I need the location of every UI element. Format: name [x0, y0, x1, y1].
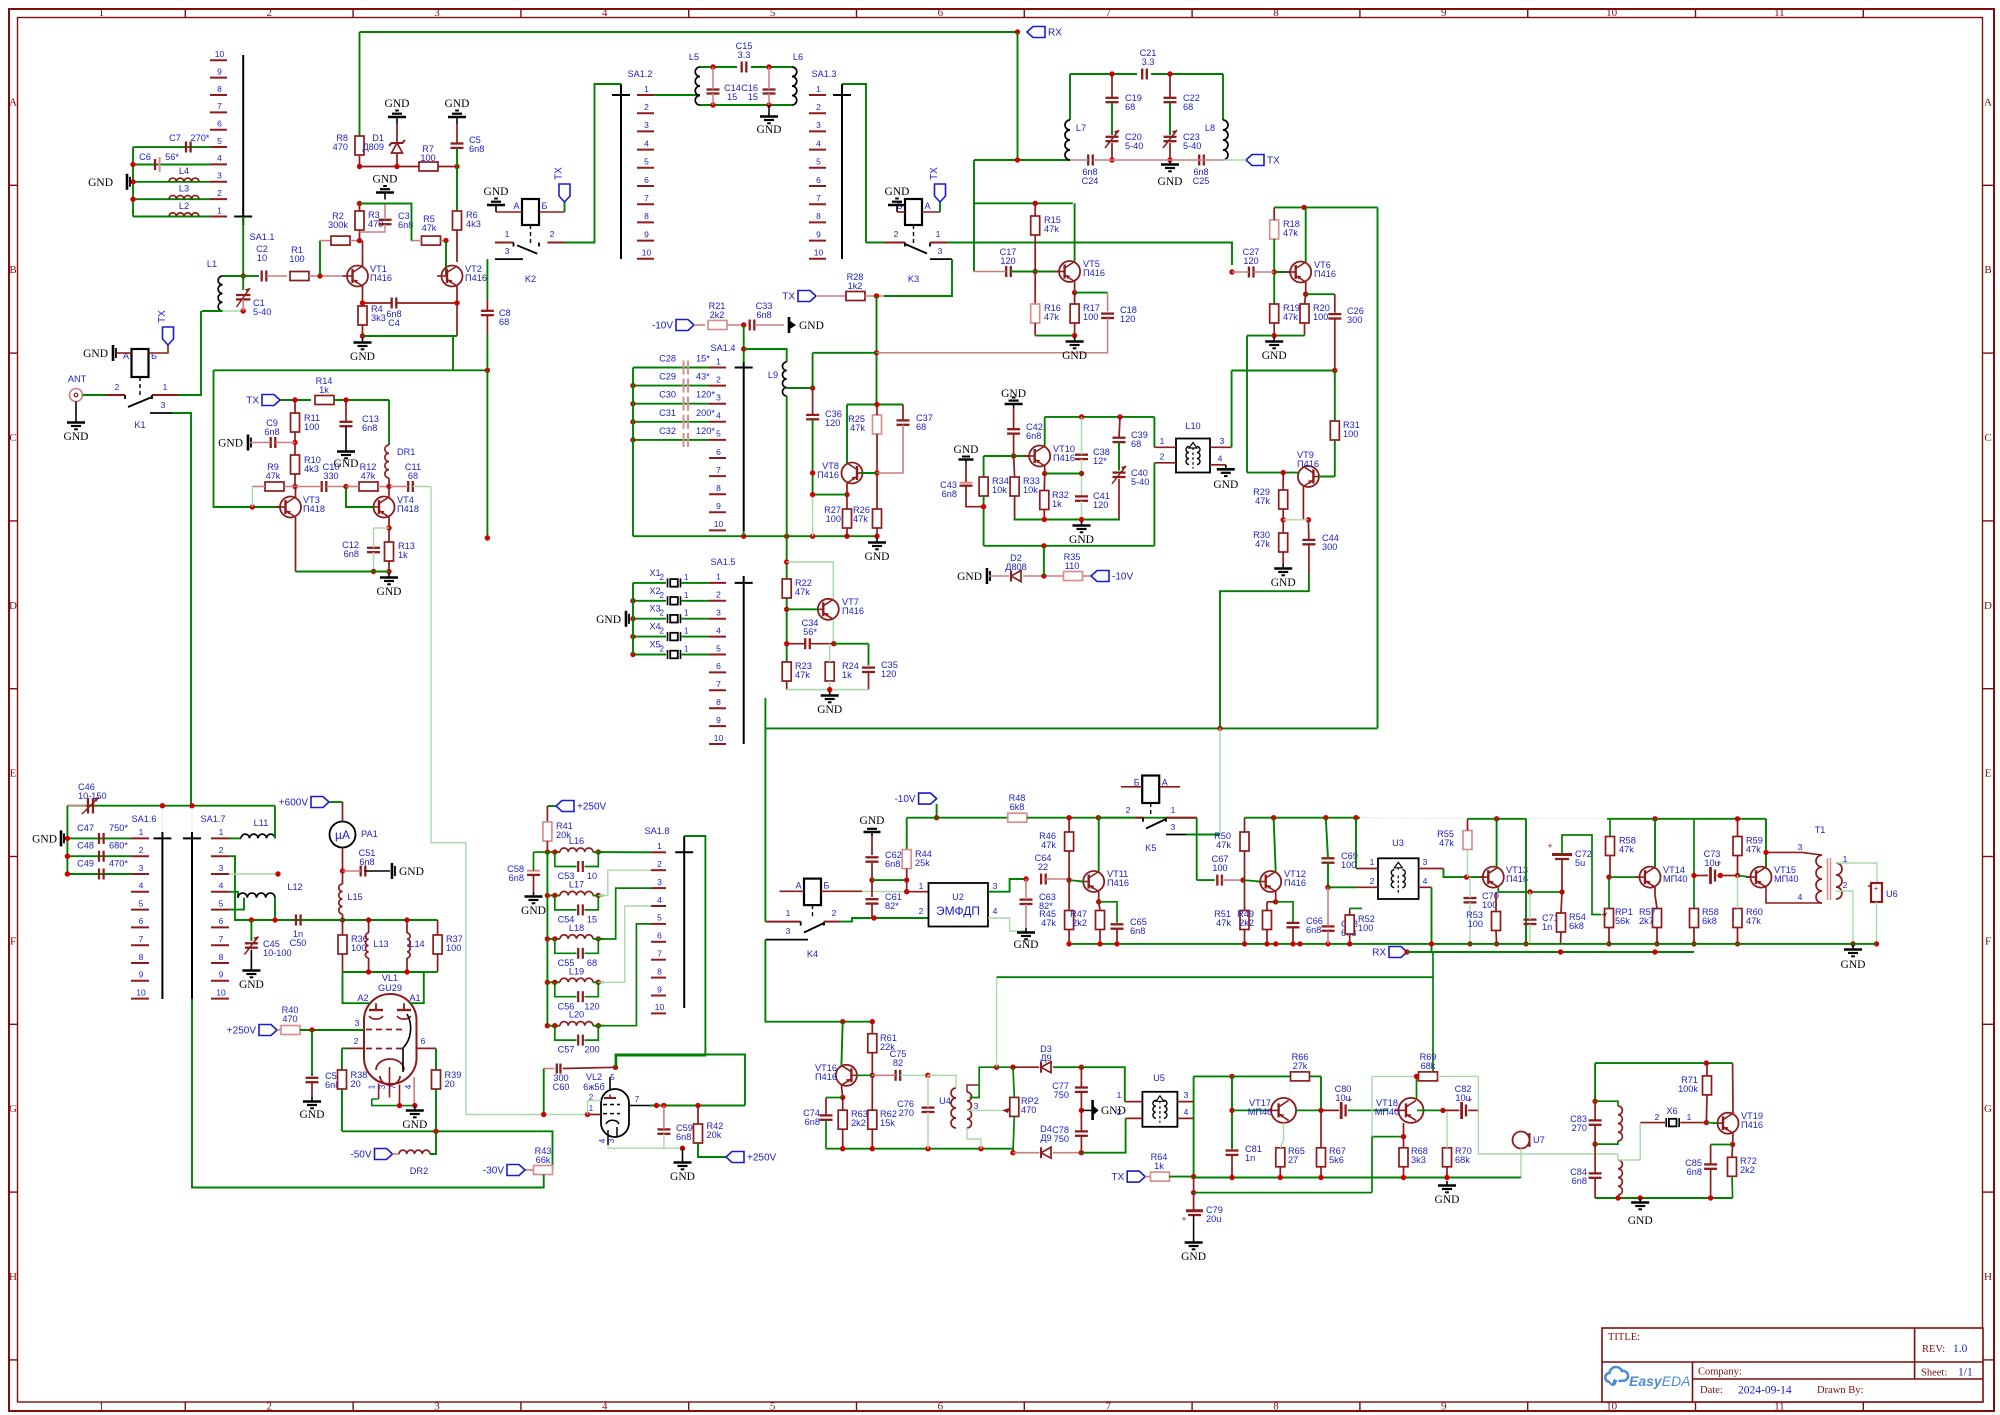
- svg-text:10: 10: [714, 733, 724, 743]
- label C36: [825, 409, 842, 428]
- svg-text:C28: C28: [659, 354, 676, 364]
- capacitor C39: [1113, 438, 1126, 442]
- svg-text:4: 4: [1798, 892, 1803, 902]
- junction: [1353, 815, 1358, 820]
- wire R66 right: [1310, 1075, 1322, 1077]
- wire C15 to L6 top: [751, 66, 792, 68]
- wire C81 bottom: [1231, 1155, 1233, 1178]
- capacitor C14: [707, 83, 741, 102]
- wire VT6 top rail: [1274, 206, 1377, 208]
- wire to C60: [544, 1068, 555, 1070]
- wire U4 pin4 down: [967, 1128, 981, 1149]
- wire R64 right: [1169, 1176, 1194, 1178]
- wire VT12 collector: [1274, 818, 1276, 872]
- svg-text:5: 5: [716, 429, 721, 439]
- wire K2 coil to flag: [539, 211, 565, 213]
- wire VT15 base: [1738, 876, 1752, 878]
- junction: [596, 849, 601, 854]
- ground left of K1 coil: [83, 345, 116, 361]
- wire L18 right: [593, 938, 604, 940]
- svg-text:2: 2: [660, 645, 665, 654]
- capacitor C81: [1226, 1151, 1239, 1155]
- junction: [1015, 157, 1020, 162]
- svg-text:750: 750: [1054, 1134, 1069, 1144]
- ground below VT8: [865, 538, 890, 563]
- junction: [766, 64, 771, 69]
- inductor L7: [1065, 120, 1086, 160]
- junction: [1494, 941, 1499, 946]
- svg-text:4: 4: [404, 1084, 413, 1089]
- wire K2 pin3 down: [486, 259, 488, 299]
- svg-text:6n8: 6n8: [1130, 926, 1145, 936]
- wire R47 bottom: [1099, 930, 1101, 944]
- svg-text:100: 100: [1083, 312, 1098, 322]
- capacitor C69: [1322, 858, 1335, 862]
- svg-text:3.3: 3.3: [1142, 57, 1155, 67]
- wire K4 coil left: [780, 890, 805, 892]
- wire C20 bottom: [1111, 143, 1113, 160]
- junction: [695, 1103, 700, 1108]
- wire stub11: [191, 806, 193, 832]
- wire stub17: [1244, 817, 1246, 819]
- capacitor C3: [379, 220, 392, 224]
- svg-text:1n: 1n: [1542, 922, 1552, 932]
- svg-text:C7: C7: [169, 133, 181, 143]
- wire C46 left: [67, 805, 85, 807]
- wire R53 top: [1495, 892, 1497, 912]
- wire R3 node to R5: [360, 204, 412, 241]
- wire VT3/VT4 emitter rail: [296, 571, 390, 573]
- svg-text:U5: U5: [1153, 1073, 1165, 1083]
- capacitor C51: [361, 866, 366, 877]
- switch SA1.6 common bar: [131, 814, 171, 999]
- svg-text:П416: П416: [842, 606, 864, 616]
- wire VT13 collector: [1496, 819, 1498, 867]
- capacitor C13: [340, 422, 353, 426]
- wire R16 bottom: [1034, 323, 1036, 336]
- svg-text:8: 8: [816, 211, 821, 221]
- wire R67 bottom: [1320, 1167, 1322, 1178]
- wire C70 top: [1469, 877, 1471, 898]
- resistor R19: [1270, 303, 1300, 323]
- capacitor C1 variable: [236, 288, 271, 317]
- wire K5 pin3: [1187, 834, 1220, 836]
- wire rail to D2 node: [1043, 546, 1045, 576]
- wire C73 right: [1717, 875, 1737, 877]
- junction: [1559, 889, 1564, 894]
- svg-text:3: 3: [1184, 1090, 1189, 1100]
- inductor L14: [407, 933, 425, 958]
- switch SA1.5 common bar: [735, 576, 753, 744]
- resistor R65: [1276, 1146, 1305, 1167]
- svg-text:10: 10: [216, 987, 226, 997]
- wire pin2 lead: [348, 1047, 365, 1049]
- wire R11 bottom: [294, 432, 296, 455]
- capacitor C26: [1328, 314, 1341, 318]
- wire heater bottom: [372, 1099, 415, 1106]
- wire to L17: [547, 895, 560, 897]
- filter U3: [1378, 838, 1419, 899]
- switch SA1.6 contacts: [131, 827, 149, 998]
- svg-text:6n8: 6n8: [1572, 1176, 1587, 1186]
- wire VT4 base: [346, 487, 374, 508]
- wire C29 row: [633, 385, 709, 387]
- svg-text:22: 22: [1038, 862, 1048, 872]
- resistor R32: [1040, 490, 1069, 510]
- U3 pins: [1356, 857, 1444, 887]
- wire U3 pin3 to VT13: [1444, 869, 1484, 878]
- svg-text:SA1.3: SA1.3: [811, 69, 836, 79]
- wire tap up: [812, 353, 814, 388]
- junction: [1429, 941, 1434, 946]
- wire C85 bottom: [1710, 1169, 1712, 1198]
- wire PA1 bottom: [342, 848, 344, 872]
- svg-text:Д809: Д809: [362, 142, 384, 152]
- wire R65 bottom: [1279, 1167, 1281, 1178]
- svg-text:750*: 750*: [109, 823, 128, 833]
- wire R45 bottom: [1068, 930, 1070, 944]
- junction: [1318, 1108, 1323, 1113]
- wire L9 down to rail: [786, 396, 788, 536]
- label C81: [1245, 1144, 1262, 1163]
- inductor L16: [560, 836, 593, 852]
- wire C59 bottom: [664, 1134, 683, 1148]
- wire L8 right: [1222, 74, 1224, 120]
- wire VT14/VT15 rail: [1607, 818, 1766, 820]
- junction: [412, 1103, 417, 1108]
- wire to TX flag K3: [939, 202, 941, 212]
- ground below C79: [1181, 1238, 1206, 1263]
- svg-text:10k: 10k: [1023, 485, 1038, 495]
- net flag TX at R64: [1111, 1171, 1145, 1183]
- wire R2 left lead: [320, 240, 331, 242]
- svg-text:П416: П416: [815, 1072, 837, 1082]
- wire R61 bottom: [871, 1053, 873, 1076]
- wire pin5 tap: [598, 924, 651, 1026]
- ground below C23: [1158, 160, 1183, 188]
- junction: [292, 440, 297, 445]
- junction: [404, 917, 409, 922]
- wire R55 bottom: [1467, 850, 1469, 878]
- wire coil1 bottom: [1595, 1141, 1618, 1144]
- svg-text:4: 4: [139, 881, 144, 891]
- wire to SA1.4: [743, 325, 745, 349]
- resistor R14: [315, 376, 334, 405]
- junction: [1271, 815, 1276, 820]
- wire rail to R43: [544, 1131, 553, 1170]
- svg-text:E: E: [1985, 768, 1992, 780]
- svg-text:6k8: 6k8: [1010, 802, 1025, 812]
- wire to C75: [872, 1074, 895, 1076]
- svg-text:GND: GND: [860, 815, 885, 827]
- wire C36 bottom to emitter row: [812, 419, 814, 494]
- wire K5 coil left: [1121, 786, 1142, 788]
- wire C44 to K5 line: [1220, 574, 1309, 728]
- svg-text:3: 3: [644, 120, 649, 130]
- wire coil1 top: [1595, 1101, 1618, 1106]
- wire C18 bottom to R28 line: [877, 318, 1108, 353]
- wire node to R7: [360, 166, 420, 168]
- svg-text:GND: GND: [399, 866, 424, 878]
- wire VT11 emitter: [1098, 892, 1100, 902]
- label X2: [649, 586, 689, 600]
- junction: [1735, 873, 1740, 878]
- wire U4 to RP2 wiper: [967, 1109, 984, 1111]
- svg-text:TX: TX: [1267, 156, 1280, 167]
- wire VT13 rail: [1468, 818, 1527, 820]
- svg-text:10: 10: [587, 871, 597, 881]
- capacitor C24: [1088, 155, 1093, 166]
- svg-text:П418: П418: [303, 504, 325, 514]
- svg-text:10k: 10k: [992, 485, 1007, 495]
- svg-text:3: 3: [607, 1138, 616, 1143]
- svg-text:K4: K4: [807, 949, 818, 959]
- label C39: [1131, 430, 1148, 449]
- wire VT12 emitter: [1275, 892, 1277, 902]
- junction: [397, 1103, 402, 1108]
- svg-text:SA1.7: SA1.7: [200, 814, 225, 824]
- wire VT3 collector: [295, 487, 297, 498]
- svg-text:3: 3: [716, 393, 721, 403]
- resistor R21: [708, 301, 727, 330]
- label C19: [1125, 93, 1142, 112]
- wire VT15 emitter to T1 pin4: [1766, 887, 1802, 903]
- svg-text:C49: C49: [77, 859, 94, 869]
- junction: [552, 936, 557, 941]
- wire VT17 out: [1296, 1109, 1321, 1111]
- switch SA1.1 common bar: [234, 55, 274, 242]
- svg-text:C24: C24: [1082, 176, 1099, 186]
- junction: [1652, 949, 1657, 954]
- svg-text:5k6: 5k6: [1329, 1155, 1344, 1165]
- junction: [371, 569, 376, 574]
- svg-text:100: 100: [1212, 863, 1227, 873]
- relay K2 contacts: [495, 229, 565, 284]
- svg-text:C: C: [9, 432, 16, 444]
- svg-text:4: 4: [816, 138, 821, 148]
- wire R13 top: [388, 528, 390, 542]
- wire SA1.1 left rail: [132, 147, 134, 216]
- svg-text:B: B: [9, 264, 16, 276]
- wire pin2 lead: [588, 1100, 602, 1102]
- ground left of X3: [596, 611, 629, 627]
- label C3: [398, 211, 413, 230]
- junction: [1096, 815, 1101, 820]
- svg-text:L9: L9: [768, 370, 778, 380]
- junction: [545, 980, 550, 985]
- inductor L20: [560, 1010, 593, 1026]
- capacitor C27: [1249, 267, 1254, 278]
- potentiometer RP1: [1605, 907, 1633, 928]
- inductor L17: [560, 880, 593, 896]
- wire VT11 base: [1069, 880, 1084, 881]
- wire bar stub: [743, 531, 745, 536]
- svg-text:4: 4: [602, 7, 608, 19]
- wire K5 pin1 down: [1196, 818, 1198, 880]
- wire VT9 emitter: [1302, 487, 1304, 520]
- svg-text:4: 4: [217, 153, 222, 163]
- wire C26 bottom: [1334, 319, 1336, 371]
- wire L12 right down: [274, 898, 276, 920]
- label C38: [1093, 447, 1110, 466]
- svg-text:L14: L14: [409, 939, 424, 949]
- capacitor C23 variable: [1163, 130, 1177, 148]
- svg-text:2: 2: [550, 229, 555, 239]
- wire C82 left: [1443, 1109, 1459, 1111]
- wire VT18 emitter: [1403, 1123, 1405, 1148]
- svg-text:VL2: VL2: [586, 1072, 602, 1082]
- svg-text:2k2: 2k2: [1740, 1165, 1755, 1175]
- wire R14 to C13 node: [334, 399, 389, 401]
- junction: [552, 893, 557, 898]
- junction: [630, 652, 635, 657]
- wire R27 bottom: [846, 528, 848, 536]
- ground above D1: [385, 98, 410, 124]
- wire SA1.8 wiper to VL2: [616, 836, 705, 1067]
- svg-text:2k2: 2k2: [851, 1118, 866, 1128]
- wire L3 row: [133, 198, 210, 200]
- wire R46 top: [1068, 818, 1070, 832]
- label C22: [1183, 93, 1200, 112]
- wire VT19 emitter: [1732, 1133, 1734, 1144]
- wire C54 loop left: [555, 896, 577, 910]
- junction: [784, 641, 789, 646]
- junction: [1079, 1150, 1084, 1155]
- relay K5 dashed link: [1150, 803, 1152, 815]
- resistor R49: [1237, 909, 1271, 930]
- svg-text:D: D: [9, 600, 17, 612]
- svg-text:C60: C60: [553, 1082, 570, 1092]
- wire VL2 cathode: [608, 1145, 664, 1148]
- svg-text:10-100: 10-100: [263, 948, 292, 958]
- wire C69 top: [1326, 818, 1328, 859]
- svg-text:2: 2: [660, 609, 665, 618]
- wire C11 long to VL2: [431, 487, 466, 1115]
- wire C83 top: [1594, 1101, 1596, 1120]
- wire VT16 emitter: [841, 1085, 842, 1097]
- microphone U7: [1513, 1132, 1545, 1149]
- junction: [130, 197, 135, 202]
- junction: [1850, 941, 1855, 946]
- capacitor C70: [1464, 898, 1477, 902]
- svg-text:L7: L7: [1076, 123, 1086, 133]
- resistor R5: [422, 214, 441, 245]
- wire emitter to C85: [1711, 1144, 1733, 1146]
- wire C57 loop right: [585, 1026, 599, 1040]
- wire C68 top: [1327, 887, 1329, 926]
- junction: [1033, 201, 1038, 206]
- junction: [869, 877, 874, 882]
- junction: [874, 470, 879, 475]
- wire R28 right: [865, 295, 884, 297]
- svg-text:47k: 47k: [1283, 312, 1298, 322]
- junction: [189, 803, 194, 808]
- capacitor C75: [896, 1070, 901, 1081]
- svg-text:6n8: 6n8: [756, 310, 771, 320]
- svg-text:6n8: 6n8: [509, 873, 524, 883]
- svg-text:F: F: [1985, 935, 1991, 947]
- junction: [1467, 941, 1472, 946]
- wire GND to C43: [965, 463, 967, 482]
- net flag -30V: [483, 1165, 525, 1177]
- junction: [661, 1103, 666, 1108]
- svg-text:GND: GND: [1435, 1194, 1460, 1206]
- junction: [710, 64, 715, 69]
- wire C8 top lead: [486, 299, 488, 311]
- junction: [552, 849, 557, 854]
- wire stub4: [1231, 243, 1233, 273]
- wire X6 left: [1640, 1122, 1665, 1124]
- wire SA1.7 pin4: [229, 892, 238, 898]
- junction: [1217, 726, 1222, 731]
- junction: [630, 616, 635, 621]
- wire C3 bottom: [360, 224, 386, 232]
- wire C73 left: [1694, 875, 1708, 877]
- svg-text:GND: GND: [239, 979, 264, 991]
- svg-text:7: 7: [657, 949, 662, 959]
- junction: [1301, 205, 1306, 210]
- wire SA1.6 left rail: [66, 806, 68, 874]
- svg-text:6: 6: [421, 1036, 426, 1046]
- svg-text:8: 8: [139, 952, 144, 962]
- svg-text:1: 1: [1117, 1090, 1122, 1100]
- junction: [1010, 1065, 1015, 1070]
- diode D3: [1041, 1062, 1051, 1073]
- svg-text:3: 3: [378, 1084, 387, 1089]
- svg-text:68: 68: [1131, 439, 1141, 449]
- wire emitter link: [1283, 519, 1308, 521]
- wire VT19 collector: [1732, 1063, 1734, 1113]
- wire C76 bottom: [927, 1112, 929, 1149]
- wire C72 to RP1 wiper: [1562, 835, 1601, 915]
- capacitor C65: [1111, 924, 1124, 928]
- resistor R24: [825, 661, 859, 681]
- label C68: [1341, 919, 1358, 938]
- svg-text:2: 2: [266, 1401, 272, 1413]
- wire flag to R40: [277, 1029, 281, 1031]
- label SA1.5: [710, 557, 735, 567]
- svg-text:1: 1: [684, 645, 689, 654]
- svg-text:K2: K2: [525, 274, 536, 284]
- junction: [1079, 1065, 1084, 1070]
- filter U2 EMFDP: [929, 883, 989, 927]
- svg-text:6: 6: [716, 447, 721, 457]
- svg-text:3: 3: [217, 171, 222, 181]
- svg-text:6n8: 6n8: [264, 427, 279, 437]
- wire T1 pin2 down: [1836, 891, 1853, 944]
- svg-text:3: 3: [434, 1401, 440, 1413]
- wire R57 bottom: [1656, 928, 1658, 944]
- wire C2 to R1: [266, 275, 287, 277]
- resistor R44: [902, 849, 932, 869]
- capacitor C64: [1041, 874, 1046, 885]
- wire stub18: [1418, 907, 1420, 909]
- resistor R58 second: [1690, 907, 1719, 928]
- junction: [545, 893, 550, 898]
- wire U6 to rail: [1876, 902, 1878, 944]
- svg-text:GND: GND: [1101, 1105, 1126, 1117]
- inductor L5: [689, 52, 700, 105]
- capacitor C71: [1524, 920, 1537, 924]
- junction: [443, 238, 448, 243]
- svg-text:-50V: -50V: [350, 1150, 371, 1161]
- svg-text:100: 100: [1343, 429, 1358, 439]
- svg-text:750: 750: [1054, 1090, 1069, 1100]
- svg-text:100: 100: [420, 153, 435, 163]
- wire C62 to C61: [871, 862, 873, 897]
- svg-text:10u: 10u: [1335, 1093, 1350, 1103]
- wire GND to C42: [1013, 408, 1015, 429]
